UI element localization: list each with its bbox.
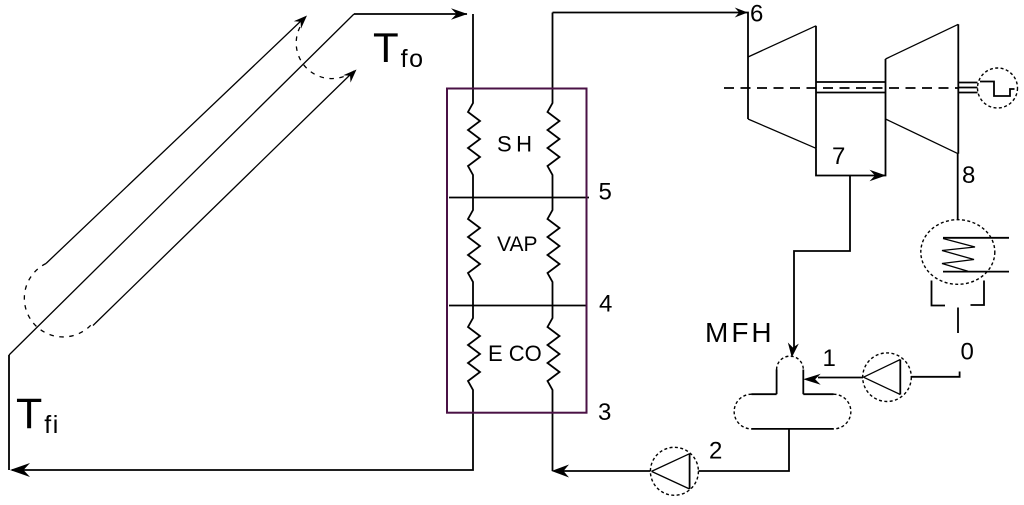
wire: extraction branch to MFH [794,176,850,352]
svg-text:E CO: E CO [488,341,542,366]
solar collector lower edge line C [93,71,354,326]
svg-text:0: 0 [961,339,974,366]
arrow extraction into MFH [786,343,798,359]
condenser coil zigzag [942,239,975,272]
arrow return to collector [10,463,30,477]
pump P1 triangle base [899,360,901,395]
arrow on line C top [343,66,360,83]
condenser hotwell bracket [932,281,946,306]
svg-text:MFH: MFH [705,317,775,348]
turbine shaft double line [816,81,886,83]
pump P1 dashed circle [863,353,912,402]
HX divider node 4 [449,305,586,307]
collector bottom end-cap dashed arc [24,264,91,337]
wire: HP exhaust crossover (node 7) [816,119,886,176]
wire: steam line to HP turbine (node 6) [553,13,749,58]
wire: MFH outlet to pump P2 [699,429,790,471]
wire: condensate outlet [957,308,959,334]
solar collector upper edge line A [46,19,303,264]
arrow into MFH right side [803,374,821,385]
MFH body straight edges [752,393,777,395]
arrow feedwater into ECO [552,465,570,478]
wire: pump P1 suction [911,372,960,377]
svg-text:2: 2 [709,438,722,465]
collector top end-cap dashed arc [296,27,355,79]
MFH body end arcs [734,394,751,429]
svg-text:7: 7 [832,143,845,170]
arrow crossover into LP [870,170,887,182]
svg-text:8: 8 [962,162,975,189]
wire: LP exhaust to condenser (node 8) [957,154,959,220]
pump P2 triangle slants [652,454,690,472]
MFH dome legs [776,370,778,395]
arrow on line A top [294,12,311,29]
wire: node 3 riser [552,413,554,471]
condenser cooling pipe bottom [943,271,1009,273]
MFH dome arc [777,356,804,369]
HX divider node 5 [449,197,589,199]
arrow into HX left coil top [451,8,468,20]
svg-text:SH: SH [497,132,537,157]
HP turbine vertical edges [747,57,749,119]
generator shaft stub lines [958,82,977,84]
shaft dashed axis [724,87,958,89]
arrow steam into turbine [735,8,748,18]
LP turbine slant edges [886,24,959,59]
wire: bottom return line HX to collector [12,413,473,470]
solar collector absorber line B [9,14,354,355]
wire: pump P1 discharge to MFH (node 1) [818,377,863,379]
svg-text:1: 1 [823,345,836,372]
svg-text:VAP: VAP [497,233,537,256]
HP turbine slant edges [748,26,816,57]
wire: left vertical Tfi line [8,355,10,470]
svg-text:3: 3 [598,399,611,426]
pump P1 triangle slants [864,360,901,378]
svg-text:5: 5 [599,179,612,206]
condenser cooling pipe top [943,237,1009,239]
wire: pump P2 discharge to HX (node 3) [560,470,651,472]
HX left coil (solar fluid) [468,14,480,413]
condenser dashed circle [921,220,995,285]
pump P2 triangle base [689,454,691,489]
LP turbine vertical edges [885,59,887,119]
svg-text:6: 6 [750,1,763,28]
wire: collector outlet pipe Tfo to HX [354,13,467,15]
HX right coil (water/steam) [548,13,560,413]
pump P2 dashed circle [650,447,698,495]
HX purple box [447,89,587,413]
generator square-wave symbol [980,82,1015,97]
svg-text:4: 4 [599,291,612,318]
generator G dashed circle [978,68,1018,108]
